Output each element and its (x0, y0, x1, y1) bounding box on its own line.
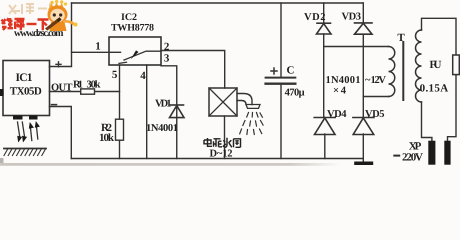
svg-text:×4: ×4 (333, 85, 347, 96)
svg-text:30k: 30k (87, 80, 101, 91)
wire primary bottom to left prong (422, 102, 432, 141)
svg-text:5: 5 (112, 69, 118, 81)
wire secondary bottom AC (363, 96, 388, 98)
svg-text:FU: FU (430, 59, 442, 71)
svg-text:1N4001: 1N4001 (146, 123, 178, 134)
transformer core (402, 42, 404, 100)
diode VD2 (317, 23, 332, 34)
wire secondary top AC (324, 46, 389, 48)
svg-text:C: C (287, 65, 295, 77)
wire valve to rail (224, 116, 226, 159)
diode VD1 1N4001 (170, 105, 185, 118)
label ~220V tilde dash (393, 155, 400, 157)
svg-text:IC2: IC2 (121, 12, 137, 23)
water spray (240, 113, 263, 135)
svg-text:0.15A: 0.15A (420, 82, 449, 94)
svg-text:2: 2 (164, 41, 170, 53)
svg-text:1N4001: 1N4001 (326, 75, 361, 86)
reflecting surface (4, 148, 46, 150)
svg-text:4: 4 (140, 70, 146, 82)
resistor R2 10k (116, 119, 124, 140)
chassis bar (354, 162, 373, 166)
svg-text:3: 3 (164, 53, 170, 65)
minus sign IC1 (52, 104, 57, 106)
wire R2 to rail (119, 140, 121, 158)
wire primary top to fuse (422, 18, 457, 55)
plus sign cap (271, 68, 277, 74)
wire VD4 to rail (324, 134, 326, 159)
faucet spout (237, 94, 252, 105)
watermark mascot (45, 0, 78, 31)
wire IC2 pin 3 down through VD1 (161, 66, 177, 159)
IC1 left tab (0, 89, 4, 96)
diode VD4 (314, 118, 335, 135)
wire OUT to R1 (50, 91, 120, 93)
watermark red text 维库一下 (2, 18, 49, 30)
IC1 bottom tab pins (13, 116, 23, 120)
valve solenoid box (209, 88, 237, 116)
label valve CJK 电磁水阀 (fake glyphs) (204, 138, 241, 148)
diode VD5 (353, 118, 374, 135)
IC2 U2 TWH8778 box (109, 37, 161, 65)
svg-text:VD5: VD5 (365, 109, 385, 120)
wire IC2 pin 4 down (146, 65, 148, 159)
库 (15, 19, 25, 30)
维 (2, 18, 14, 30)
svg-text:TWH8778: TWH8778 (111, 23, 154, 34)
fuse FU box (453, 55, 460, 75)
svg-text:~ 12V: ~ 12V (365, 75, 386, 86)
wire IC1 minus branch (50, 107, 72, 159)
capacitor C 470u (280, 3, 282, 77)
svg-text:VD4: VD4 (327, 109, 347, 120)
svg-text:OUT: OUT (51, 83, 73, 94)
svg-text:T: T (397, 32, 405, 44)
scan smudge bottom left (0, 158, 4, 163)
wire fuse to right prong (448, 75, 457, 141)
IC2 switch blade (124, 51, 161, 60)
svg-text:220V: 220V (402, 152, 423, 164)
svg-text:R1: R1 (73, 80, 83, 91)
svg-text:1: 1 (95, 41, 101, 53)
diode VD3 branch wire (362, 3, 364, 117)
wire IC1 plus branch (50, 3, 72, 67)
svg-text:VD3: VD3 (342, 12, 362, 23)
wire IC2 pin 1 (72, 51, 110, 53)
IR arrows emit (17, 121, 40, 143)
svg-text:TX05D: TX05D (10, 86, 42, 98)
plug XP left prong (428, 141, 435, 165)
transformer T primary winding (416, 30, 422, 102)
diode VD2 branch wire (323, 3, 325, 117)
下 (38, 20, 49, 31)
IR arrows reflect (30, 126, 32, 141)
IC2 pin1 inner stub (109, 51, 121, 53)
svg-text:VD1: VD1 (155, 99, 172, 110)
一 (27, 23, 37, 25)
resistor R1 30k (81, 89, 95, 94)
svg-text:VD2: VD2 (304, 12, 326, 23)
svg-text:IC1: IC1 (16, 72, 33, 84)
wire IC2 pin 5 down (119, 65, 121, 119)
wire bottom rail (71, 158, 363, 160)
plug XP right prong (444, 141, 450, 165)
svg-text:10k: 10k (99, 132, 115, 144)
svg-text:D~12: D~12 (210, 149, 233, 160)
wire IC2 pin 2 to valve (161, 51, 225, 89)
diode VD3 (355, 23, 373, 34)
wire top +12V rail (72, 2, 364, 4)
transformer T secondary winding (389, 47, 395, 97)
plus sign IC1 (56, 62, 61, 67)
svg-text:470μ: 470μ (285, 87, 305, 98)
IC1 U1 TX05D box (3, 61, 50, 116)
watermark faded text (9, 3, 60, 14)
wire VD5 to rail and chassis bar (362, 134, 364, 162)
